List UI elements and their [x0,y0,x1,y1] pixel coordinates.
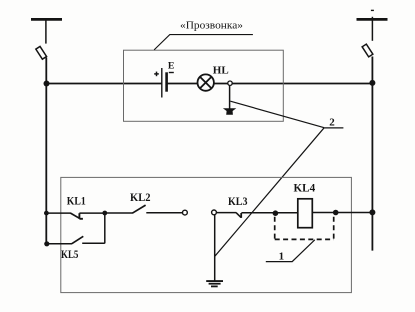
junction dot left bus / main wire [44,81,50,87]
battery E long plate [161,68,163,98]
wire: KL5 to join [82,242,105,244]
contact KL5 (open blade) [72,236,84,243]
contact KL2 (open blade) [132,205,145,213]
bus bar right [357,18,388,21]
ground symbol [206,281,223,286]
node A (open terminal) [228,81,232,85]
wire: KL1 to junction [79,212,104,214]
battery E plus sign [154,72,159,77]
junction dot KL1/left bus [44,211,49,216]
wire: KL1/KL5 join vertical [104,213,106,243]
wire: left bus upper segment [45,20,47,44]
leader line for Prozvonka label [154,35,253,50]
junction dot right bus / KL4 wire [369,209,375,215]
svg-text:E: E [168,61,175,72]
junction dot dashed-box left [273,210,279,216]
wire: right bus main vertical [371,57,373,251]
junction dot dashed-box right [333,210,339,216]
open terminal C (KL3 branch left) [212,210,217,215]
contact KL3 (closed blade with hook) [236,213,241,218]
dashed box around KL4 [275,217,334,240]
battery E short plate [165,72,168,91]
junction dot right bus / main wire [369,80,375,86]
wire: KL1 feed [46,212,70,214]
lamp HL [198,74,214,90]
minus sign under E [169,72,174,74]
big relay box [61,177,352,292]
wire: KL4 to right bus [312,212,372,214]
contact KL1 (closed blade with hook) [70,213,83,219]
svg-text:KL2: KL2 [130,190,151,204]
svg-text:KL1: KL1 [67,194,86,208]
wire: probe drop from node A [229,85,231,109]
svg-text:KL5: KL5 [61,247,78,261]
svg-text:1: 1 [279,250,285,262]
wire: KL5 feed [47,243,72,245]
leader line 1 [266,240,315,262]
wire: left bus main vertical [45,58,47,245]
small dash above right bar [371,9,374,11]
svg-text:KL4: KL4 [294,181,316,195]
wire: KL2 to terminal [146,212,182,214]
wire: KL2 feed [105,212,133,214]
wire: KL3 feed [216,212,236,214]
svg-text:HL: HL [213,66,229,77]
leader line 2b (to KL3 ground wire) [215,128,324,257]
svg-text:«Прозвонка»: «Прозвонка» [180,20,243,32]
svg-text:KL3: KL3 [228,194,248,208]
wire: KL3 to KL4 [241,212,297,214]
disconnector switch right (open blade) [362,44,373,57]
bus bar left [31,18,62,21]
wire: ground drop from terminal C [214,215,216,281]
open terminal B (KL2 right) [183,210,188,215]
relay coil KL4 [298,199,313,228]
box Prozvonka [124,50,284,121]
disconnector switch left (open blade) [36,46,47,59]
junction dot KL1/KL5 join [102,211,107,216]
leader 2 horizontal tick [324,127,343,129]
leader line 2a (to probe wire) [230,101,324,128]
wire: main horizontal wire [46,83,162,85]
wire: right bus upper segment [371,17,373,41]
junction dot KL5/left bus [44,241,49,246]
svg-text:2: 2 [329,117,335,129]
probe arrow (ground probe) [223,108,236,115]
